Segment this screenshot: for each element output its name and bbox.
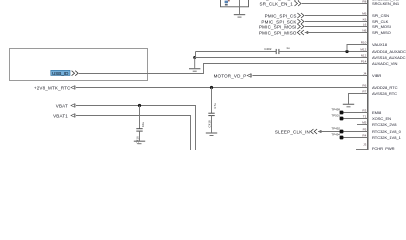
- svg-text:R3: R3: [362, 109, 366, 113]
- chevron PMIC_SPI_MOSI: [297, 24, 304, 29]
- junction dot C416 tap: [138, 104, 141, 107]
- arrow VBAT1: [71, 114, 75, 117]
- svg-text:M6: M6: [362, 12, 367, 16]
- svg-text:1u: 1u: [286, 46, 290, 50]
- component box D1 (clipped at top): [221, 0, 249, 7]
- svg-text:FCHR_PWR: FCHR_PWR: [372, 146, 395, 150]
- svg-text:AUXADC_VIN: AUXADC_VIN: [372, 61, 397, 66]
- wire VBAT1: [76, 116, 191, 151]
- svg-text:J3: J3: [363, 142, 367, 146]
- svg-text:R6: R6: [362, 84, 366, 88]
- chevron PMIC_SPI_SCK: [297, 19, 304, 24]
- wire C418 bottom lead: [211, 116, 213, 133]
- svg-text:TP499: TP499: [331, 107, 340, 111]
- svg-text:M12: M12: [360, 48, 366, 52]
- wire +2V8_MTK_RTC to AVDD28_RTC: [76, 87, 368, 89]
- wire C418 top lead: [211, 88, 213, 114]
- svg-text:XOSC_EN: XOSC_EN: [372, 116, 391, 121]
- svg-text:AVSS18_AUXADC: AVSS18_AUXADC: [372, 55, 406, 60]
- wire VBAT: [76, 106, 196, 151]
- arrow MOTOR_VD_P: [247, 74, 251, 77]
- wire C416 bottom lead: [139, 131, 141, 141]
- svg-text:MOTOR_VD_P: MOTOR_VD_P: [214, 74, 247, 79]
- svg-text:PMIC_SPI_CS: PMIC_SPI_CS: [265, 14, 297, 19]
- svg-text:RTC32K_2V8: RTC32K_2V8: [372, 122, 397, 127]
- svg-text:P14: P14: [361, 60, 367, 64]
- wire AVSS18 to ground: [194, 58, 196, 69]
- wire SR_CLK_EN_1 to SRCLKEN_IN1: [302, 3, 368, 5]
- wire MOTOR_VD_P to VIBR: [252, 75, 367, 77]
- svg-text:RTC32K_1V8_1: RTC32K_1V8_1: [372, 135, 402, 140]
- svg-text:TP492: TP492: [331, 126, 340, 130]
- svg-text:SPI_MOSI: SPI_MOSI: [372, 24, 391, 29]
- svg-text:SR_CLK_EN_1: SR_CLK_EN_1: [260, 2, 294, 7]
- hierarchical block border: [10, 49, 148, 81]
- svg-text:VBAT1: VBAT1: [53, 114, 68, 119]
- svg-text:R7: R7: [362, 90, 366, 94]
- svg-text:N12: N12: [361, 54, 367, 58]
- svg-text:VIBR: VIBR: [372, 73, 381, 78]
- svg-text:J4: J4: [363, 72, 367, 76]
- wire FCHR_PWR stub (clipped): [356, 149, 368, 151]
- svg-text:SPI_MISO: SPI_MISO: [372, 30, 391, 35]
- svg-text:R4: R4: [362, 134, 366, 138]
- ground G2: [189, 69, 200, 72]
- chevron SR_CLK_EN_1: [295, 1, 302, 6]
- wire AVDD18 right segment: [279, 51, 368, 53]
- wire SLEEP_CLK_IN to RTC32K_1V8_0: [318, 131, 368, 133]
- wire VAUX18 branch: [347, 45, 368, 52]
- chevron PMIC_SPI_CS: [297, 13, 304, 18]
- arrow +2V8_MTK_RTC: [71, 86, 75, 89]
- capacitor C402: [276, 49, 279, 54]
- svg-text:SLEEP_CLK_IN: SLEEP_CLK_IN: [275, 130, 310, 135]
- svg-text:N6: N6: [362, 29, 366, 33]
- svg-text:+2V8_MTK_RTC: +2V8_MTK_RTC: [34, 86, 71, 91]
- svg-text:10u: 10u: [141, 122, 145, 127]
- wire PMIC_SPI_CS to SPI_CSN: [305, 15, 368, 17]
- wire AVSS28_RTC to ground: [349, 94, 368, 105]
- svg-text:AVSS28_RTC: AVSS28_RTC: [372, 91, 397, 96]
- svg-text:RTC32K_1V8_0: RTC32K_1V8_0: [372, 129, 402, 134]
- wire PMIC_SPI_MISO to SPI_MISO: [305, 32, 368, 34]
- wire component D1 to ground: [239, 0, 241, 14]
- ground G1: [234, 15, 245, 18]
- svg-text:K6: K6: [363, 18, 367, 22]
- wire XOSC_EN stub: [342, 118, 368, 120]
- svg-text:TP494: TP494: [331, 132, 340, 136]
- svg-text:PMIC_SPI_MOSI: PMIC_SPI_MOSI: [259, 25, 297, 30]
- junction dot VAUX18 branch: [345, 50, 348, 53]
- net label USB_ID (highlighted): [51, 70, 70, 76]
- svg-text:EMI8: EMI8: [372, 110, 382, 115]
- test point TP492: [340, 130, 344, 134]
- wire RTC32K_2V8 stub: [357, 124, 368, 126]
- svg-text:P5: P5: [363, 128, 367, 132]
- svg-text:M5: M5: [362, 121, 367, 125]
- ground G5: [343, 104, 354, 107]
- svg-text:R8: R8: [362, 0, 366, 4]
- svg-text:PMIC_SPI_MISO: PMIC_SPI_MISO: [259, 31, 297, 36]
- capacitor C416: [136, 129, 142, 131]
- wire AVDD18 left segment: [196, 51, 277, 53]
- ground G4: [134, 141, 145, 144]
- wire C416 top lead: [139, 106, 141, 129]
- junction dot C418 tap: [210, 86, 213, 89]
- svg-text:VBAT: VBAT: [56, 104, 68, 109]
- wire RTC32K_1V8_1 stub: [342, 137, 368, 139]
- test point TP494: [340, 136, 344, 140]
- svg-text:AVDD18_AUXADC: AVDD18_AUXADC: [372, 49, 406, 54]
- svg-text:L6: L6: [363, 23, 367, 27]
- chevron PMIC_SPI_MISO (input): [297, 30, 304, 35]
- svg-text:AVDD28_RTC: AVDD28_RTC: [372, 85, 398, 90]
- chevron SR_CLK_EN_0 (clipped): [295, 0, 301, 1]
- svg-text:SPI_CSN: SPI_CSN: [372, 13, 389, 18]
- capacitor C418: [208, 113, 214, 115]
- svg-text:4.7u: 4.7u: [213, 103, 217, 109]
- wire PMIC_SPI_MOSI to SPI_MOSI: [305, 26, 368, 28]
- test point TP499: [340, 111, 344, 115]
- svg-text:SRCLKEN_IN1: SRCLKEN_IN1: [372, 1, 400, 6]
- svg-text:C402: C402: [264, 47, 272, 51]
- junction dot AVSS18 net: [193, 56, 196, 59]
- svg-text:T1: T1: [363, 115, 367, 119]
- chip boundary U1: [367, 0, 369, 150]
- wire USB_ID to AUXADC_VIN: [79, 64, 368, 74]
- arrow VBAT: [71, 104, 75, 107]
- svg-text:USB_ID: USB_ID: [52, 71, 69, 76]
- chevron SLEEP_CLK_IN (input): [311, 129, 318, 134]
- svg-text:R10: R10: [361, 41, 367, 45]
- svg-text:VAUX18: VAUX18: [372, 42, 388, 47]
- wire AVDD18 riser: [195, 52, 197, 58]
- svg-text:SR_CLK_EN_0: SR_CLK_EN_0: [260, 0, 294, 1]
- ground G3: [206, 133, 217, 136]
- chevron USB_ID: [72, 71, 79, 76]
- svg-text:TP501: TP501: [331, 113, 340, 117]
- wire EMI8 stub: [342, 112, 368, 114]
- test point TP501: [340, 117, 344, 121]
- wire AVSS18_AUXADC: [195, 57, 368, 59]
- wire PMIC_SPI_SCK to SPI_CLK: [305, 21, 368, 23]
